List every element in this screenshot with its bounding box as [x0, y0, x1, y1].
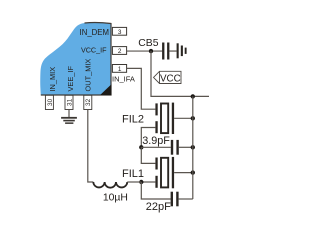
pin 31 box — [65, 95, 73, 109]
node FIL2 output — [191, 116, 195, 120]
node at CB5 — [149, 49, 153, 53]
svg-text:VCC: VCC — [160, 73, 181, 84]
svg-text:VEE_IF: VEE_IF — [66, 66, 75, 92]
filter FIL1 (ceramic filter) — [155, 157, 192, 188]
right bus wire — [192, 96, 194, 199]
ground (rotated, right of CB5) — [177, 43, 187, 58]
capacitor 22pF — [171, 192, 193, 207]
svg-text:3.9pF: 3.9pF — [142, 135, 170, 147]
wire bus down to FIL1 input — [141, 147, 155, 163]
svg-text:FIL1: FIL1 — [122, 168, 144, 180]
wire pin32 down to inductor — [88, 110, 94, 183]
svg-text:IN_MIX: IN_MIX — [48, 67, 57, 92]
svg-text:32: 32 — [85, 98, 92, 106]
svg-text:30: 30 — [47, 98, 54, 106]
svg-text:31: 31 — [66, 98, 73, 106]
pin 30 box — [45, 95, 53, 109]
node FIL1 output — [191, 170, 195, 174]
svg-text:22pF: 22pF — [146, 201, 171, 213]
wire pin1 (IN_IFA) to FIL2 input — [127, 68, 156, 109]
svg-text:VCC_IF: VCC_IF — [81, 46, 107, 55]
capacitor 3.9pF — [141, 140, 193, 155]
pin 1 box — [112, 65, 126, 73]
wire FIL2 lower terminal to bus — [141, 128, 155, 148]
node 3.9pF right — [191, 145, 195, 149]
capacitor CB5 — [162, 43, 177, 60]
node on VCC rail — [191, 94, 195, 98]
wire FIL1 lower terminal — [141, 181, 155, 183]
svg-text:IN_DEM: IN_DEM — [80, 28, 109, 37]
svg-text:10µH: 10µH — [103, 192, 128, 203]
svg-text:2: 2 — [118, 48, 122, 55]
svg-text:CB5: CB5 — [138, 38, 158, 49]
svg-text:IN_IFA: IN_IFA — [112, 75, 135, 84]
VCC power tag — [154, 71, 182, 84]
pin 32 box — [84, 95, 92, 109]
ground (VEE_IF) — [61, 117, 77, 124]
svg-text:OUT_MIX: OUT_MIX — [84, 59, 93, 92]
wire pin31 to ground — [68, 110, 70, 118]
wire pin2 to CB5 node — [127, 50, 163, 52]
svg-text:3: 3 — [118, 29, 122, 36]
chip corner marker — [101, 85, 111, 94]
wire CB5 node down to VCC rail — [151, 51, 209, 96]
IC U1 (partial body with torn edge) — [40, 23, 111, 95]
node FIL1 input junction — [139, 180, 143, 184]
svg-text:FIL2: FIL2 — [122, 114, 144, 126]
pin 3 box — [112, 27, 126, 35]
wire junction down to 22pF — [141, 182, 170, 199]
pin 2 box — [112, 47, 126, 55]
svg-text:1: 1 — [118, 66, 122, 73]
filter FIL2 (ceramic filter) — [155, 103, 192, 134]
inductor L (10uH) — [93, 182, 141, 188]
node 3.9pF left — [139, 145, 143, 149]
